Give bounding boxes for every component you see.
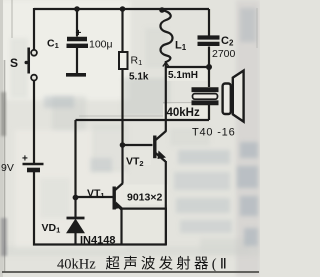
node L1 top <box>159 7 165 13</box>
capacitor C2 2700 <box>198 35 220 39</box>
wire top rail <box>34 8 209 10</box>
wire rail to C1 <box>76 9 78 37</box>
ground <box>66 73 86 77</box>
wire node E down to VD1 <box>74 198 76 217</box>
diode VD1 1N4148 <box>67 217 85 220</box>
svg-text:+: + <box>22 154 28 165</box>
wire C2 drop <box>208 9 210 36</box>
wire transducer to feedback <box>208 105 210 120</box>
wire VT2 emitter to rail <box>165 161 167 244</box>
svg-text:5.1mH: 5.1mH <box>168 70 198 81</box>
wire node E to VT1 base <box>76 196 113 198</box>
wire rail to R1 <box>121 9 123 52</box>
svg-text:100μ: 100μ <box>89 39 113 51</box>
switch S <box>31 50 37 56</box>
wire battery to bottom rail <box>33 172 35 246</box>
wire left rail upper (to switch) <box>33 8 35 50</box>
svg-text:40kHz 超声波发射器(Ⅱ: 40kHz 超声波发射器(Ⅱ <box>57 255 230 273</box>
node R1 top <box>120 6 126 12</box>
wire C1 to ground <box>76 48 78 73</box>
emitter-loop white box <box>122 209 167 245</box>
battery 9V <box>23 163 44 165</box>
white label patches <box>78 67 207 245</box>
transducer B 40kHz piezo plates <box>192 87 219 92</box>
capacitor C1 100u <box>67 37 87 41</box>
wire node D to transducer <box>208 67 210 87</box>
wire VT1 collector riser <box>121 145 123 183</box>
transducer horn <box>233 71 244 122</box>
node C1 top <box>74 6 80 12</box>
svg-text:9013×2: 9013×2 <box>127 192 162 204</box>
inductor L1 5.1mH <box>160 10 172 62</box>
svg-text:+: + <box>76 28 82 39</box>
L1 bottom arrow tick <box>163 62 169 66</box>
wire R1 to node B <box>121 69 123 145</box>
svg-text:S: S <box>10 56 18 70</box>
svg-text:IN4148: IN4148 <box>80 235 115 247</box>
wire L1 to VT2 collector (crosses feedback wire) <box>165 61 167 132</box>
svg-text:9V: 9V <box>1 162 14 174</box>
wire C2 to node D <box>208 47 210 68</box>
svg-text:5.1k: 5.1k <box>129 72 149 83</box>
transistor VT1 9013 <box>112 187 115 210</box>
transducer driver body <box>223 84 231 115</box>
node E (VT1 base / VD1) <box>73 195 79 201</box>
wire switch to battery <box>33 81 35 164</box>
svg-text:2700: 2700 <box>212 48 236 60</box>
resistor R1 5.1k <box>119 52 128 69</box>
wire VT1 emitter to rail <box>120 209 122 244</box>
svg-text:T40 -16: T40 -16 <box>192 127 236 139</box>
scan left-edge shadow <box>0 0 3 277</box>
svg-text:40kHz: 40kHz <box>167 107 200 119</box>
wire VT1 emitter to VT2 emitter <box>122 208 167 210</box>
node B (R1 / VT1 collector / VT2 base) <box>120 142 126 148</box>
bleed-through print (reverse page) <box>44 96 258 246</box>
node D <box>206 64 212 70</box>
wire bottom rail <box>33 243 166 245</box>
bottom rule <box>2 271 259 273</box>
wire feedback (transducer to VT1 base) <box>76 119 210 121</box>
transistor VT2 9013 <box>153 136 156 159</box>
wire L1 bottom to node D <box>166 66 209 68</box>
wire node B to VT2 base <box>123 144 153 146</box>
